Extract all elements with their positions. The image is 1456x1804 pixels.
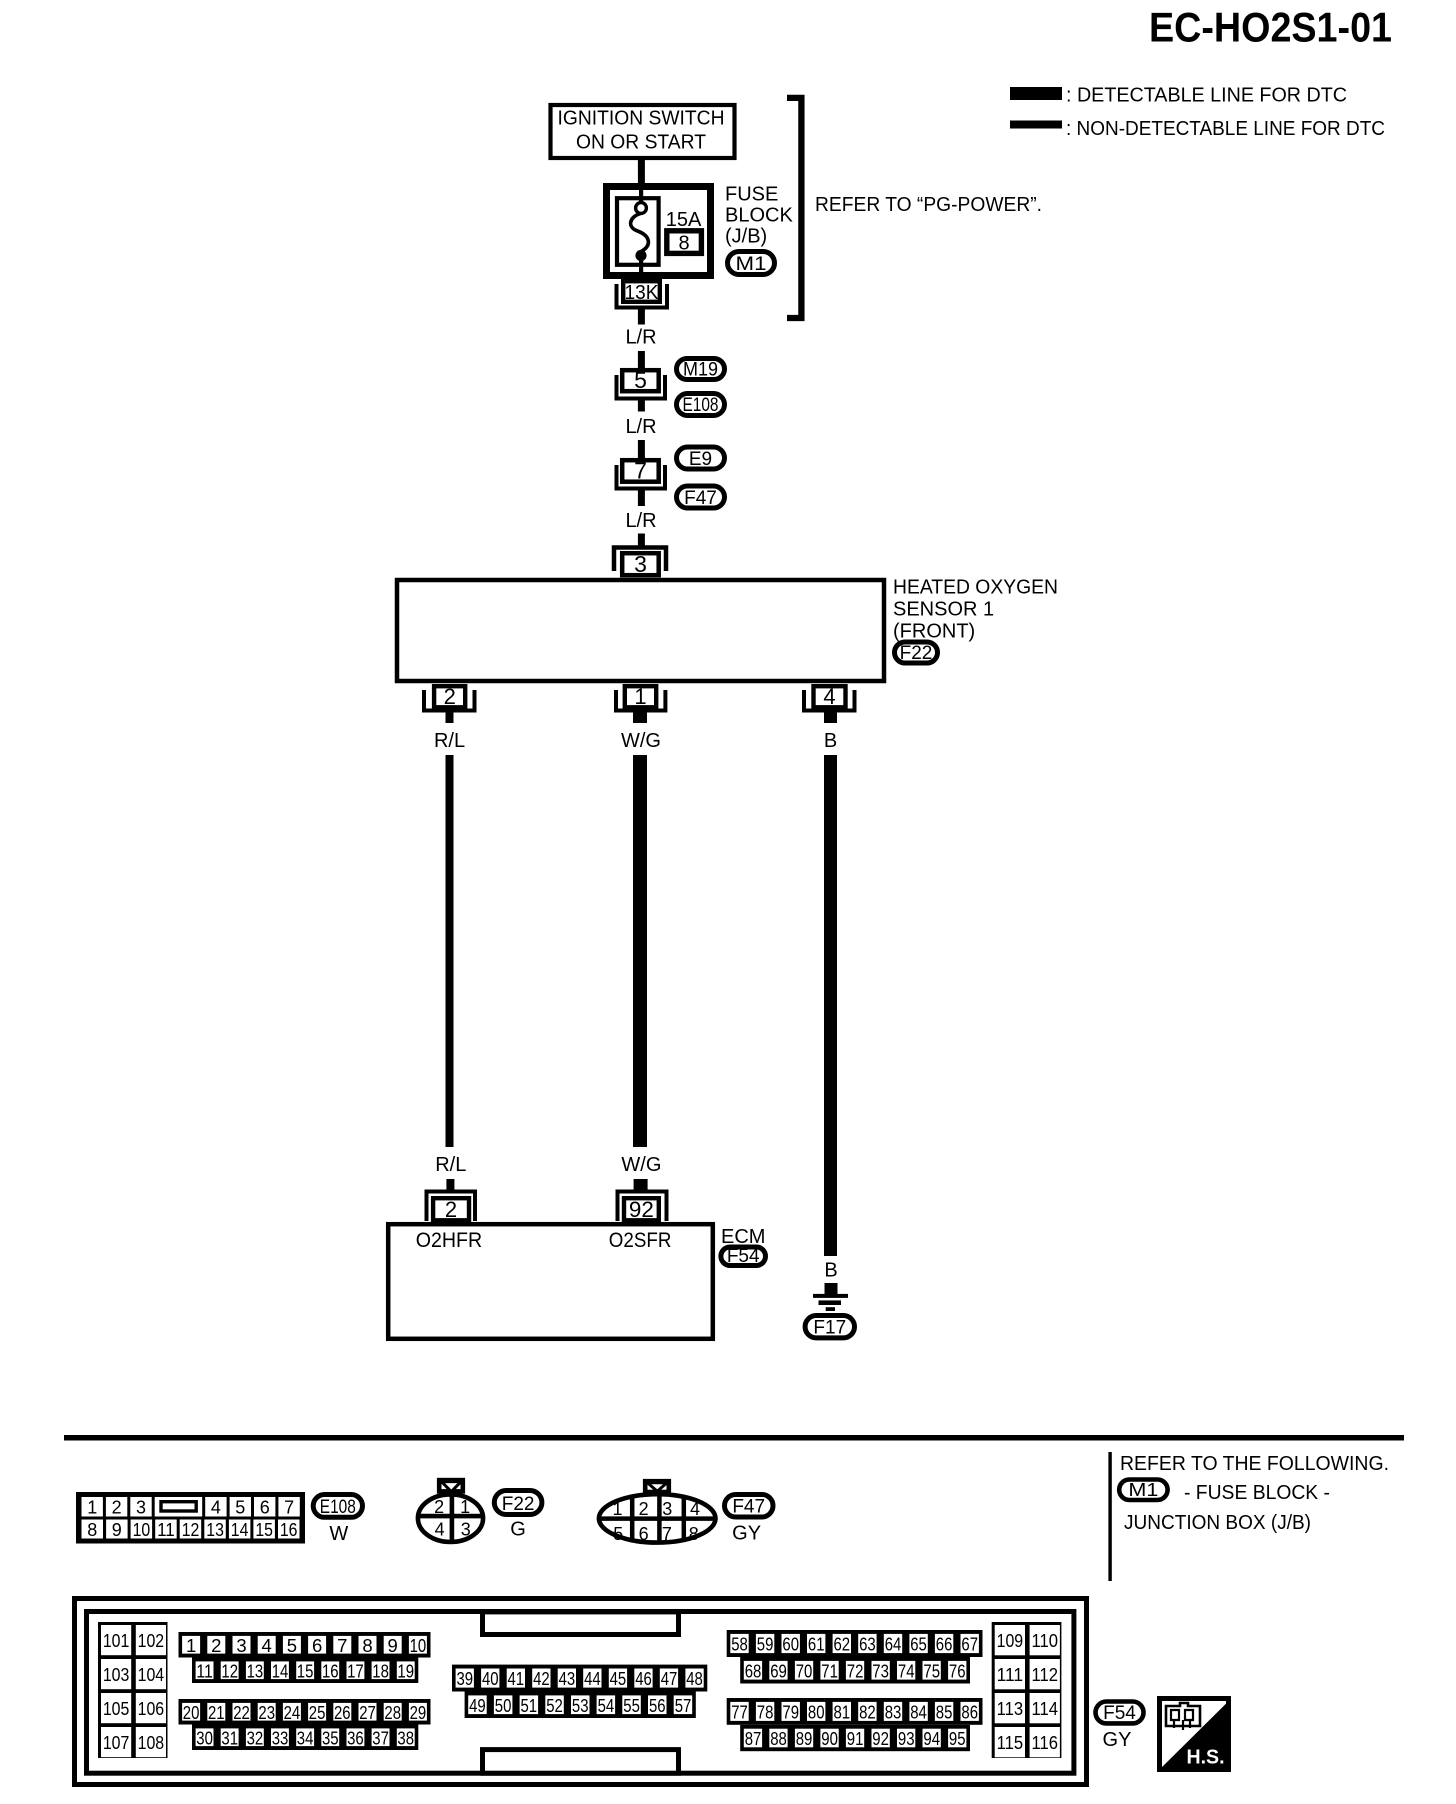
svg-text:6: 6	[312, 1635, 322, 1656]
svg-text:L/R: L/R	[625, 510, 656, 532]
svg-text:O2SFR: O2SFR	[609, 1229, 672, 1252]
svg-text:18: 18	[372, 1661, 389, 1682]
svg-text:SENSOR 1: SENSOR 1	[893, 599, 994, 621]
svg-text:38: 38	[397, 1728, 414, 1749]
svg-text:21: 21	[208, 1702, 225, 1723]
wire stub W/G below connector 1	[633, 713, 647, 724]
svg-text:(J/B): (J/B)	[725, 226, 767, 248]
svg-text:W/G: W/G	[621, 730, 661, 752]
svg-text:106: 106	[138, 1699, 165, 1719]
svg-text:3: 3	[662, 1499, 672, 1519]
svg-text:16: 16	[280, 1520, 298, 1540]
svg-text:L/R: L/R	[625, 327, 656, 349]
svg-text:E108: E108	[683, 395, 719, 416]
ECM pin 92 box	[624, 1198, 659, 1220]
svg-text:7: 7	[634, 458, 647, 484]
svg-text:10: 10	[133, 1520, 151, 1540]
connector E108 oval (pinout)	[313, 1495, 362, 1518]
svg-text:115: 115	[997, 1733, 1024, 1753]
svg-text:13: 13	[206, 1520, 224, 1540]
svg-text:71: 71	[821, 1661, 838, 1682]
svg-text:111: 111	[997, 1665, 1024, 1685]
svg-text:3: 3	[136, 1498, 146, 1518]
svg-text:E9: E9	[689, 449, 712, 470]
svg-text:30: 30	[196, 1728, 213, 1749]
svg-text:EC-HO2S1-01: EC-HO2S1-01	[1149, 4, 1392, 51]
svg-text:BLOCK: BLOCK	[725, 205, 793, 227]
svg-text:9: 9	[112, 1520, 122, 1540]
connector F22 oval (pinout)	[494, 1491, 542, 1515]
svg-text:11: 11	[157, 1520, 175, 1540]
connector 5 box	[622, 370, 659, 391]
svg-text:95: 95	[949, 1728, 966, 1749]
svg-text:62: 62	[834, 1634, 851, 1655]
svg-text:81: 81	[834, 1702, 851, 1723]
svg-text:49: 49	[469, 1695, 486, 1716]
svg-text:F22: F22	[900, 643, 933, 664]
svg-text:3: 3	[461, 1520, 471, 1540]
svg-text:36: 36	[347, 1728, 364, 1749]
svg-text:108: 108	[138, 1733, 165, 1753]
label FUSE BLOCK (J/B)	[725, 184, 793, 248]
connector 2 bracket (sensor)	[424, 690, 475, 711]
ECM pins 39-48 row	[452, 1665, 707, 1692]
svg-text:5: 5	[634, 367, 647, 393]
ECM pins 20-29 row	[179, 1699, 431, 1725]
svg-text:F22: F22	[502, 1494, 535, 1515]
svg-text:66: 66	[936, 1634, 953, 1655]
svg-text:1: 1	[460, 1497, 470, 1517]
svg-text:2: 2	[639, 1499, 649, 1519]
svg-text:JUNCTION BOX (J/B): JUNCTION BOX (J/B)	[1124, 1512, 1311, 1534]
svg-text:1: 1	[186, 1635, 196, 1656]
svg-text:28: 28	[384, 1702, 401, 1723]
svg-text:B: B	[824, 1260, 837, 1282]
connector 2 box (sensor)	[434, 686, 465, 707]
svg-text:8: 8	[362, 1635, 372, 1656]
svg-text:113: 113	[997, 1699, 1024, 1719]
ECM pins 68-76 row	[740, 1657, 970, 1684]
svg-text:12: 12	[221, 1661, 238, 1682]
svg-text:: DETECTABLE LINE FOR DTC: : DETECTABLE LINE FOR DTC	[1066, 85, 1347, 107]
connector M1 oval	[728, 252, 775, 275]
svg-text:8: 8	[678, 233, 689, 255]
ECM pin 92 bracket	[618, 1192, 667, 1222]
svg-text:39: 39	[457, 1668, 474, 1689]
svg-text:13K: 13K	[625, 282, 660, 304]
svg-text:9: 9	[388, 1635, 398, 1656]
svg-text:F47: F47	[732, 1497, 765, 1518]
connector 3 box	[622, 553, 659, 575]
H.S. emblem	[1160, 1699, 1229, 1770]
fuse number 8 box	[667, 231, 702, 255]
fuse block (J/B) outline	[607, 187, 711, 276]
svg-text:89: 89	[796, 1728, 813, 1749]
svg-text:26: 26	[334, 1702, 351, 1723]
svg-text:REFER TO “PG-POWER”.: REFER TO “PG-POWER”.	[815, 194, 1042, 216]
svg-text:53: 53	[572, 1695, 589, 1716]
ECM connector inner frame	[87, 1612, 1074, 1774]
connector M19 oval	[677, 359, 725, 380]
wire L/R to connector 5	[638, 351, 645, 369]
heated oxygen sensor 1 box	[397, 580, 884, 681]
connector F47 oval	[677, 486, 725, 508]
svg-text:33: 33	[272, 1728, 289, 1749]
connector 1 bracket (sensor)	[616, 690, 665, 711]
svg-text:46: 46	[635, 1668, 652, 1689]
svg-text:H.S.: H.S.	[1187, 1747, 1225, 1769]
svg-text:- FUSE BLOCK -: - FUSE BLOCK -	[1184, 1482, 1330, 1504]
svg-text:94: 94	[923, 1728, 940, 1749]
svg-text:73: 73	[872, 1661, 889, 1682]
svg-text:41: 41	[508, 1668, 525, 1689]
svg-text:19: 19	[397, 1661, 414, 1682]
vertical separator line	[1108, 1452, 1111, 1581]
svg-text:M1: M1	[1128, 1480, 1158, 1500]
ECM pin 2 box	[433, 1198, 469, 1220]
svg-text:ON OR START: ON OR START	[576, 132, 706, 154]
svg-text:1: 1	[612, 1499, 622, 1519]
svg-text:83: 83	[885, 1702, 902, 1723]
svg-text:4: 4	[435, 1520, 445, 1540]
connector 13K box	[623, 281, 660, 302]
ECM pins 109-116 grid	[992, 1622, 1062, 1758]
svg-text:78: 78	[757, 1702, 774, 1723]
wire stub R/L to ECM pin 2	[446, 1179, 454, 1191]
wire L/R to connector 3	[638, 534, 645, 546]
svg-text:15: 15	[255, 1520, 273, 1540]
bracket refer to pg-power	[787, 98, 801, 318]
ECM pin 2 bracket	[427, 1192, 476, 1222]
svg-text:76: 76	[949, 1661, 966, 1682]
connector 1 box (sensor)	[625, 686, 656, 707]
svg-text:103: 103	[103, 1665, 130, 1685]
svg-text:4: 4	[690, 1499, 700, 1519]
svg-text:72: 72	[847, 1661, 864, 1682]
svg-text:13: 13	[247, 1661, 264, 1682]
svg-text:75: 75	[923, 1661, 940, 1682]
svg-text:27: 27	[359, 1702, 376, 1723]
svg-text:55: 55	[623, 1695, 640, 1716]
svg-text:90: 90	[821, 1728, 838, 1749]
connector 3 bracket	[614, 548, 666, 572]
wire L/R ignition switch to fuse block	[638, 158, 645, 186]
svg-text:51: 51	[521, 1695, 538, 1716]
svg-text:48: 48	[686, 1668, 703, 1689]
svg-text:59: 59	[757, 1634, 774, 1655]
svg-text:85: 85	[936, 1702, 953, 1723]
wire W/G (detectable)	[633, 755, 647, 1147]
svg-text:10: 10	[410, 1635, 427, 1656]
svg-text:116: 116	[1032, 1733, 1059, 1753]
svg-text:2: 2	[211, 1635, 221, 1656]
ECM connector bottom notch	[483, 1750, 679, 1774]
connector F54 oval (pinout)	[1096, 1702, 1144, 1724]
svg-text:69: 69	[770, 1661, 787, 1682]
wire B (detectable)	[824, 755, 837, 1256]
svg-text:77: 77	[731, 1702, 748, 1723]
svg-text:65: 65	[910, 1634, 927, 1655]
svg-text:2: 2	[444, 684, 456, 709]
svg-text:14: 14	[272, 1661, 289, 1682]
svg-text:R/L: R/L	[434, 730, 465, 752]
svg-text:43: 43	[559, 1668, 576, 1689]
separator rule	[64, 1435, 1404, 1441]
svg-text:34: 34	[297, 1728, 314, 1749]
ECM connector top notch	[483, 1612, 679, 1635]
svg-text:105: 105	[103, 1699, 130, 1719]
wire below connector 7	[638, 491, 645, 507]
svg-text:104: 104	[138, 1665, 165, 1685]
connector F47 oval (pinout)	[725, 1495, 774, 1518]
svg-text:5: 5	[287, 1635, 297, 1656]
svg-text:REFER TO THE FOLLOWING.: REFER TO THE FOLLOWING.	[1120, 1453, 1389, 1475]
svg-text:45: 45	[610, 1668, 627, 1689]
svg-text:HEATED OXYGEN: HEATED OXYGEN	[893, 577, 1058, 599]
svg-text:6: 6	[260, 1498, 270, 1518]
svg-text:110: 110	[1032, 1631, 1059, 1651]
svg-text:29: 29	[410, 1702, 427, 1723]
svg-text:74: 74	[898, 1661, 915, 1682]
svg-text:: NON-DETECTABLE LINE FOR DTC: : NON-DETECTABLE LINE FOR DTC	[1066, 118, 1385, 140]
connector 4 box (sensor)	[814, 686, 846, 707]
svg-text:7: 7	[662, 1524, 672, 1544]
ECM pins 11-19 row	[192, 1658, 418, 1684]
svg-text:102: 102	[138, 1631, 165, 1651]
svg-text:92: 92	[872, 1728, 889, 1749]
svg-text:57: 57	[675, 1695, 692, 1716]
ECM pins 49-57 row	[465, 1692, 696, 1719]
wire L/R to connector 7	[638, 440, 645, 458]
ignition switch box	[551, 105, 735, 158]
svg-text:4: 4	[262, 1635, 272, 1656]
svg-text:4: 4	[823, 684, 835, 709]
svg-text:35: 35	[322, 1728, 339, 1749]
svg-text:61: 61	[808, 1634, 825, 1655]
svg-text:4: 4	[211, 1498, 221, 1518]
svg-text:F54: F54	[727, 1246, 760, 1267]
svg-text:23: 23	[258, 1702, 275, 1723]
wire below 13K	[638, 310, 645, 325]
svg-text:12: 12	[182, 1520, 200, 1540]
svg-text:6: 6	[639, 1524, 649, 1544]
svg-text:O2HFR: O2HFR	[416, 1229, 483, 1252]
svg-text:64: 64	[885, 1634, 902, 1655]
svg-text:F17: F17	[813, 1318, 846, 1339]
svg-text:3: 3	[634, 551, 647, 577]
svg-text:M1: M1	[736, 254, 767, 275]
svg-text:32: 32	[247, 1728, 264, 1749]
svg-text:2: 2	[434, 1497, 444, 1517]
ECM pins 101-108 grid	[98, 1622, 168, 1758]
svg-text:W/G: W/G	[621, 1154, 661, 1176]
svg-text:24: 24	[284, 1702, 301, 1723]
svg-text:88: 88	[770, 1728, 787, 1749]
connector F22 oval	[895, 642, 938, 663]
svg-text:87: 87	[745, 1728, 762, 1749]
svg-text:M19: M19	[683, 360, 718, 381]
connector F17 oval	[805, 1316, 854, 1338]
ground symbol	[813, 1294, 848, 1311]
svg-text:70: 70	[796, 1661, 813, 1682]
svg-text:40: 40	[482, 1668, 499, 1689]
svg-text:42: 42	[533, 1668, 550, 1689]
wire R/L (non-detectable)	[446, 755, 454, 1147]
svg-text:2: 2	[445, 1197, 457, 1222]
svg-text:92: 92	[629, 1197, 654, 1222]
svg-text:1: 1	[87, 1498, 97, 1518]
svg-text:47: 47	[661, 1668, 678, 1689]
svg-text:L/R: L/R	[625, 416, 656, 438]
connector 4 bracket (sensor)	[804, 690, 855, 711]
svg-text:31: 31	[221, 1728, 238, 1749]
svg-text:79: 79	[782, 1702, 799, 1723]
svg-text:86: 86	[961, 1702, 978, 1723]
svg-text:80: 80	[808, 1702, 825, 1723]
ECM pins 1-10 row	[179, 1632, 431, 1658]
svg-text:B: B	[824, 730, 837, 752]
connector 5 bracket	[617, 375, 666, 399]
svg-text:107: 107	[103, 1733, 130, 1753]
svg-text:F54: F54	[1103, 1703, 1136, 1724]
ECM pins 87-95 row	[740, 1725, 970, 1751]
svg-text:25: 25	[309, 1702, 326, 1723]
wire stub B to ground	[825, 1283, 838, 1294]
svg-text:(FRONT): (FRONT)	[893, 621, 975, 643]
svg-text:7: 7	[337, 1635, 347, 1656]
wire stub B below connector 4	[824, 713, 837, 724]
svg-text:44: 44	[584, 1668, 601, 1689]
ECM pins 77-86 row	[727, 1698, 983, 1725]
svg-text:GY: GY	[1103, 1729, 1132, 1751]
ECM pins 30-38 row	[192, 1725, 418, 1751]
svg-text:67: 67	[961, 1634, 978, 1655]
svg-text:8: 8	[689, 1524, 699, 1544]
svg-text:1: 1	[634, 684, 646, 709]
svg-text:68: 68	[745, 1661, 762, 1682]
svg-text:91: 91	[847, 1728, 864, 1749]
svg-text:5: 5	[613, 1524, 623, 1544]
svg-text:22: 22	[233, 1702, 250, 1723]
svg-text:56: 56	[649, 1695, 666, 1716]
svg-text:11: 11	[196, 1661, 213, 1682]
legend: detectable line sample bar	[1010, 87, 1062, 100]
svg-text:G: G	[510, 1519, 526, 1541]
connector E108 pinout grid	[76, 1492, 305, 1544]
svg-text:93: 93	[898, 1728, 915, 1749]
svg-text:8: 8	[87, 1520, 97, 1540]
svg-text:114: 114	[1032, 1699, 1059, 1719]
svg-text:5: 5	[235, 1498, 245, 1518]
connector E108 oval	[677, 394, 725, 416]
svg-text:2: 2	[112, 1498, 122, 1518]
connector 13K bracket	[617, 284, 668, 308]
connector 7 bracket	[617, 465, 666, 489]
svg-text:16: 16	[322, 1661, 339, 1682]
svg-text:7: 7	[284, 1498, 294, 1518]
svg-text:112: 112	[1032, 1665, 1059, 1685]
legend: non-detectable line sample bar	[1010, 121, 1062, 129]
svg-text:IGNITION SWITCH: IGNITION SWITCH	[558, 108, 725, 130]
ECM pins 58-67 row	[727, 1630, 983, 1657]
label heated oxygen sensor 1 front	[893, 577, 1058, 643]
connector F47 pinout	[597, 1481, 718, 1545]
svg-text:20: 20	[183, 1702, 200, 1723]
connector 7 box	[622, 460, 659, 482]
svg-text:60: 60	[782, 1634, 799, 1655]
svg-text:37: 37	[372, 1728, 389, 1749]
svg-text:17: 17	[347, 1661, 364, 1682]
connector M1 oval (note)	[1119, 1480, 1167, 1501]
svg-text:54: 54	[598, 1695, 615, 1716]
svg-text:FUSE: FUSE	[725, 184, 778, 206]
svg-text:GY: GY	[732, 1523, 761, 1545]
wire below connector 5	[638, 401, 645, 412]
svg-text:15: 15	[297, 1661, 314, 1682]
ECM box	[388, 1224, 713, 1339]
svg-text:109: 109	[997, 1631, 1024, 1651]
svg-text:15A: 15A	[666, 209, 702, 231]
wire stub R/L below connector 2	[446, 713, 454, 724]
connector F54 oval	[721, 1247, 766, 1266]
connector F22 pinout	[418, 1480, 483, 1542]
svg-text:84: 84	[910, 1702, 927, 1723]
svg-text:E108: E108	[320, 1497, 356, 1518]
svg-text:101: 101	[103, 1631, 130, 1651]
svg-text:63: 63	[859, 1634, 876, 1655]
svg-text:52: 52	[546, 1695, 563, 1716]
wire stub W/G to ECM pin 92	[634, 1179, 648, 1191]
svg-text:58: 58	[731, 1634, 748, 1655]
fuse 15A element	[617, 186, 659, 279]
svg-text:82: 82	[859, 1702, 876, 1723]
svg-text:14: 14	[231, 1520, 249, 1540]
ECM connector outer frame	[75, 1599, 1087, 1785]
connector E9 oval	[677, 447, 725, 469]
svg-text:F47: F47	[684, 488, 717, 509]
svg-text:50: 50	[495, 1695, 512, 1716]
svg-text:3: 3	[236, 1635, 246, 1656]
svg-text:R/L: R/L	[435, 1154, 466, 1176]
svg-text:W: W	[329, 1523, 348, 1545]
